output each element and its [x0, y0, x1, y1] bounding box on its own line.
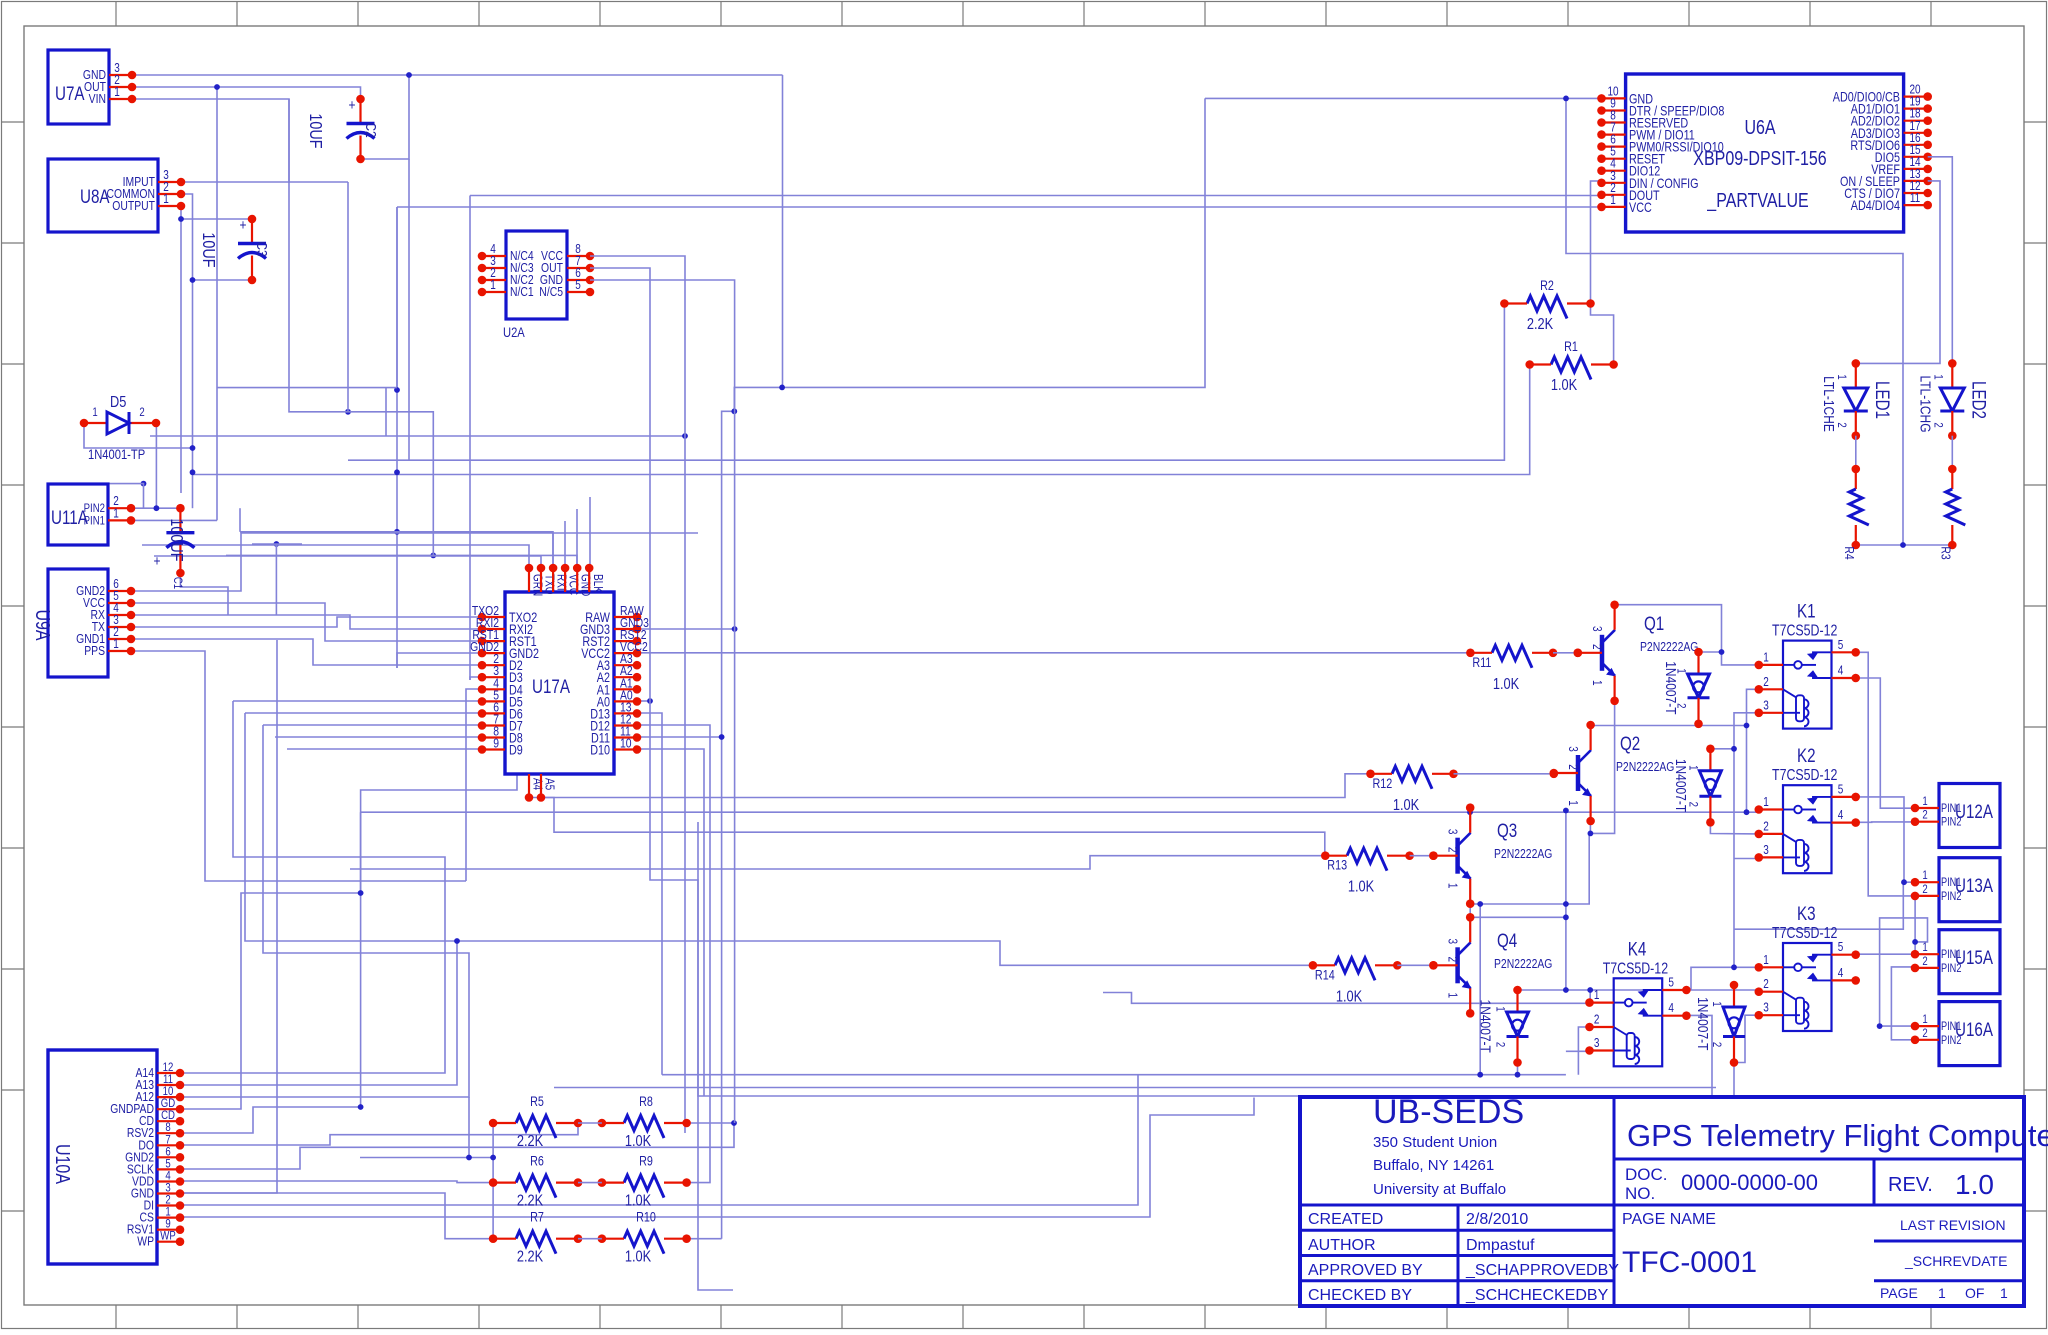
svg-text:2: 2 — [1922, 955, 1927, 968]
junction at (1565.9,990) — [1563, 987, 1569, 993]
svg-text:Q4: Q4 — [1497, 929, 1518, 951]
wire SCLK net — [180, 1123, 734, 1169]
svg-text:WP: WP — [160, 1230, 175, 1243]
connector U16A — [1939, 1002, 2000, 1066]
svg-text:R11: R11 — [1472, 655, 1491, 670]
svg-text:TFC-0001: TFC-0001 — [1622, 1246, 1757, 1279]
svg-text:P2N2222AG: P2N2222AG — [1616, 760, 1674, 774]
resistor R10 1.0K — [624, 1231, 664, 1254]
wire top2 — [154, 556, 541, 568]
wire Q3 emitter junction drop — [1479, 904, 1481, 1075]
junction at (1746.5,812.2) — [1744, 809, 1750, 815]
svg-text:R9: R9 — [639, 1153, 653, 1168]
wire GND jog left — [722, 411, 735, 1238]
IC U2A oscillator — [506, 231, 567, 319]
wire R10 feed — [687, 1238, 722, 1240]
svg-text:1N4007-T: 1N4007-T — [1673, 759, 1690, 812]
svg-text:K4: K4 — [1628, 938, 1647, 960]
svg-text:R8: R8 — [639, 1094, 653, 1109]
svg-text:1: 1 — [2000, 1285, 2008, 1301]
svg-text:10UF: 10UF — [199, 232, 219, 267]
svg-text:1: 1 — [163, 193, 169, 206]
svg-text:PIN2: PIN2 — [1941, 1035, 1962, 1047]
svg-text:2: 2 — [139, 406, 144, 419]
junction at (1721.5,652) — [1719, 649, 1725, 655]
wire x360 up — [361, 774, 517, 893]
wire mid — [578, 1238, 602, 1240]
svg-text:Q1: Q1 — [1644, 612, 1664, 634]
diode D1 1N4007-T — [1697, 652, 1699, 674]
wire top1 — [142, 545, 529, 568]
svg-text:1: 1 — [92, 406, 97, 419]
svg-text:R4: R4 — [1841, 546, 1855, 560]
svg-text:PIN2: PIN2 — [1941, 963, 1962, 975]
resistor R14 1.0K — [1335, 958, 1375, 981]
resistor R6 2.2K — [516, 1175, 556, 1198]
svg-text:VCC: VCC — [1629, 200, 1652, 215]
svg-text:N/C5: N/C5 — [539, 285, 563, 299]
wire A13 link — [180, 941, 457, 1085]
svg-text:PIN1: PIN1 — [1941, 803, 1962, 815]
wire K4 pin5 to K3 pin1 — [1686, 967, 1758, 989]
wire U6A DIN to R2 — [1591, 181, 1602, 304]
wire D5 pin — [233, 700, 482, 702]
wire COMMON to C1 link — [192, 448, 194, 508]
svg-text:_SCHREVDATE: _SCHREVDATE — [1904, 1253, 2007, 1269]
connector U12A — [1939, 784, 2000, 848]
svg-text:OUTPUT: OUTPUT — [112, 199, 155, 213]
wire RXI2 net — [470, 677, 482, 680]
junction at (1565.9,810.5) — [1563, 808, 1569, 814]
wire D1 top tie — [1699, 651, 1722, 653]
junction at (1590.4,833.4) — [1588, 831, 1594, 837]
junction at (721.6,737) — [719, 734, 725, 740]
svg-text:PIN1: PIN1 — [1941, 877, 1962, 889]
wire VCC long — [397, 206, 1602, 208]
svg-text:T7CS5D-12: T7CS5D-12 — [1772, 621, 1838, 639]
wire D4/K4 node — [1518, 990, 1759, 992]
svg-text:N/C1: N/C1 — [510, 285, 534, 299]
svg-text:R1: R1 — [1564, 339, 1578, 354]
IC U8A regulator — [48, 159, 158, 232]
junction at (457,941) — [454, 938, 460, 944]
junction at (734.6,629) — [732, 626, 738, 632]
wire U9A VCC right — [131, 603, 482, 641]
junction at (1915.1,941.9) — [1912, 939, 1918, 945]
svg-text:NO.: NO. — [1625, 1184, 1655, 1203]
title block — [1300, 1097, 2024, 1306]
svg-text:1: 1 — [1493, 1006, 1506, 1011]
wire Q1 collector to K1 pin1 — [1615, 605, 1759, 665]
svg-text:2: 2 — [1922, 809, 1927, 822]
wire left maze h390 — [217, 387, 397, 389]
svg-text:2: 2 — [1763, 978, 1769, 991]
wire v386 — [385, 388, 387, 436]
wire K3 pin5 to U15A PIN1 — [1855, 953, 1915, 955]
wire K2 pin3 tie — [1734, 858, 1759, 860]
resistor R2 2.2K — [1527, 296, 1567, 319]
svg-text:1: 1 — [1938, 1285, 1946, 1301]
wire D6 pin — [245, 712, 482, 714]
svg-text:R7: R7 — [530, 1210, 544, 1225]
svg-text:1: 1 — [113, 507, 119, 520]
svg-text:R14: R14 — [1315, 967, 1335, 982]
wire Q3 collector to K2 pin1 — [361, 811, 1759, 813]
svg-text:U17A: U17A — [532, 675, 570, 697]
svg-text:2.2K: 2.2K — [1527, 316, 1554, 334]
transistor Q3 P2N2222AG — [1455, 838, 1460, 874]
svg-text:1: 1 — [1445, 993, 1458, 999]
svg-text:1: 1 — [1610, 194, 1616, 207]
svg-text:1.0K: 1.0K — [1348, 878, 1375, 896]
svg-text:PAGE NAME: PAGE NAME — [1622, 1211, 1716, 1228]
wire Q4 collector riser — [1565, 811, 1567, 918]
svg-text:3: 3 — [1763, 699, 1769, 712]
junction at (1517.5,1074.7) — [1515, 1072, 1521, 1078]
connector U15A — [1939, 930, 2000, 994]
wire U11A PIN2 to C1 — [131, 507, 180, 509]
svg-text:1.0K: 1.0K — [1493, 676, 1520, 694]
svg-text:3: 3 — [1763, 1002, 1769, 1015]
IC U7A voltage regulator — [48, 50, 109, 124]
wire K2pin5 net third branch — [1734, 882, 1903, 929]
wire R2 left down — [348, 304, 1504, 461]
svg-text:PIN1: PIN1 — [1941, 1021, 1962, 1033]
svg-text:4: 4 — [1838, 665, 1844, 678]
capacitor C1 100UF — [179, 508, 181, 533]
svg-text:3: 3 — [1763, 844, 1769, 857]
wire K1 pin3 to bus V1 — [1734, 713, 1759, 968]
wire U9A PPS down — [131, 651, 466, 881]
wire DOUT long — [470, 195, 1602, 197]
junction at (469,1157.5) — [466, 1155, 472, 1161]
wire left maze v276 — [275, 544, 277, 615]
svg-text:1N4007-T: 1N4007-T — [1695, 997, 1712, 1050]
svg-text:PIN2: PIN2 — [1941, 891, 1962, 903]
wire D13 net — [637, 713, 662, 1075]
wire U15A PIN2 to U16A PIN2 — [1891, 967, 1915, 1040]
wire R11 to Q1 base — [1553, 652, 1578, 654]
svg-text:PPS: PPS — [84, 644, 105, 658]
junction dot GND at LED resistors — [1900, 542, 1906, 548]
svg-text:Q2: Q2 — [1620, 732, 1640, 754]
wire U8A OUTPUT to C3 — [181, 206, 252, 219]
svg-text:1: 1 — [114, 86, 120, 99]
svg-text:2: 2 — [1445, 847, 1458, 853]
wire VIN riser down — [289, 99, 433, 555]
svg-text:T7CS5D-12: T7CS5D-12 — [1603, 959, 1669, 977]
wire riser x277 down — [180, 640, 277, 1193]
svg-text:LTL-1CHG: LTL-1CHG — [1917, 375, 1934, 432]
svg-text:1.0K: 1.0K — [1336, 988, 1363, 1006]
svg-text:1.0K: 1.0K — [625, 1192, 652, 1210]
wire Q2 emitter — [1589, 821, 1591, 834]
wire top3 — [552, 533, 554, 568]
resistor R11 1.0K — [1492, 645, 1532, 668]
wire U9A GND2 — [131, 533, 698, 591]
svg-text:5: 5 — [575, 279, 581, 292]
svg-text:3: 3 — [1445, 829, 1458, 835]
svg-text:11: 11 — [1910, 192, 1920, 205]
wire U6A GND riser — [734, 98, 1205, 411]
svg-text:GPS Telemetry Flight Computer: GPS Telemetry Flight Computer — [1627, 1118, 2048, 1153]
wire bottom bus1 — [662, 1074, 1566, 1076]
junction at (360.6,1107) — [358, 1104, 364, 1110]
wire C2 bottom to GND riser — [361, 75, 410, 159]
svg-text:100UF: 100UF — [167, 518, 187, 561]
wire U7A GND to U6A area — [132, 74, 783, 76]
svg-text:PIN1: PIN1 — [84, 514, 105, 527]
wire R14 to Q4 base — [1397, 964, 1433, 966]
wire U8A COMMON down — [181, 194, 193, 280]
wire C3 bottom left — [193, 279, 253, 281]
LED LED1 LTL-1CHE with resistor R4 — [1852, 359, 1861, 368]
junction at (1904,882.2) — [1901, 879, 1907, 885]
svg-text:Q3: Q3 — [1497, 819, 1517, 841]
wire D5 right down — [155, 423, 157, 508]
junction at (360.6,893) — [358, 890, 364, 896]
svg-text:2.2K: 2.2K — [517, 1133, 544, 1151]
wire U9A TX — [131, 617, 482, 627]
junction at (782.1,387.4) — [779, 385, 785, 391]
wire U6A DIO5 to LED2 — [1928, 157, 1953, 364]
wire GND(U10A) net — [180, 1193, 493, 1239]
resistor R8 1.0K — [624, 1116, 664, 1139]
svg-text:U11A: U11A — [51, 506, 88, 528]
svg-text:350 Student Union: 350 Student Union — [1373, 1134, 1497, 1151]
svg-text:U6A: U6A — [1744, 116, 1776, 138]
wire VDD net — [180, 1181, 493, 1183]
wire x360 riser — [360, 812, 362, 1107]
SD card U10A — [48, 1050, 157, 1264]
svg-text:R3: R3 — [1938, 546, 1952, 560]
wire R1 left down — [193, 365, 1530, 475]
svg-text:2: 2 — [1922, 883, 1927, 896]
svg-text:R13: R13 — [1327, 858, 1347, 873]
wire D2 top tie — [1710, 748, 1734, 750]
wire D3 bottom to bus — [1733, 1063, 1735, 1097]
svg-text:VIN: VIN — [89, 92, 106, 106]
wire U2A VCC — [590, 256, 685, 1133]
svg-text:LAST REVISION: LAST REVISION — [1900, 1217, 2006, 1233]
wire D2 bottom tie — [1710, 822, 1758, 834]
wire U6A GND left — [1205, 97, 1602, 99]
svg-text:BLK: BLK — [590, 574, 603, 593]
diode D3 1N4007-T — [1733, 985, 1735, 1007]
svg-text:10: 10 — [620, 736, 632, 750]
wire U9A RX — [131, 615, 482, 629]
svg-text:1: 1 — [1763, 954, 1769, 967]
wire IMPUT riser join — [347, 182, 349, 412]
wire GND3 net — [637, 628, 735, 630]
wire Q4 collector link — [1470, 917, 1566, 990]
svg-text:1: 1 — [1590, 680, 1603, 686]
junction at (650,701) — [647, 698, 653, 704]
wire GND net down to LED resistors — [1566, 98, 1903, 545]
svg-text:C1: C1 — [171, 577, 184, 589]
svg-text:LED1: LED1 — [1871, 381, 1893, 419]
wire R4/R3 bottom join — [1856, 544, 1951, 546]
junction at (734,1123) — [731, 1120, 737, 1126]
svg-text:A5: A5 — [542, 778, 555, 790]
transistor Q1 P2N2222AG — [1600, 635, 1605, 671]
svg-text:9: 9 — [493, 736, 499, 750]
junction at (1480.2,1074.7) — [1477, 1072, 1483, 1078]
connector U11A — [48, 484, 108, 545]
svg-text:D5: D5 — [110, 394, 126, 412]
connector U13A — [1939, 858, 2000, 922]
wire R left column — [492, 1123, 494, 1239]
svg-text:1N4007-T: 1N4007-T — [1663, 661, 1680, 714]
wire R12 to Q2 base — [1454, 773, 1554, 775]
wire U2A OUT — [590, 268, 733, 1290]
svg-text:K3: K3 — [1797, 902, 1816, 924]
resistor R12 1.0K — [1392, 766, 1432, 789]
wire TXO2 net — [397, 653, 482, 668]
wire left maze h532 — [239, 508, 241, 532]
wire Q2 collector / D1 bottom — [1590, 725, 1746, 727]
svg-text:K2: K2 — [1797, 745, 1816, 767]
svg-text:2: 2 — [1493, 1042, 1506, 1047]
svg-text:WP: WP — [137, 1235, 154, 1249]
resistor R13 1.0K — [1347, 848, 1387, 871]
wire DO net — [180, 1123, 578, 1145]
wire K3 pin3 net — [1734, 1015, 1759, 1062]
resistor R9 1.0K — [624, 1175, 664, 1198]
svg-text:C2: C2 — [363, 122, 380, 137]
svg-text:1: 1 — [1922, 1013, 1927, 1026]
LED LED2 LTL-1CHG with resistor R3 — [1948, 359, 1957, 368]
wire D4 bottom to bus — [1517, 1063, 1519, 1075]
svg-text:1: 1 — [1922, 795, 1927, 808]
MCU U17A — [505, 592, 614, 774]
svg-text:U7A: U7A — [55, 82, 85, 104]
wire bus3 — [554, 1087, 1716, 1089]
svg-text:1: 1 — [1763, 651, 1769, 664]
wire D4 pin — [466, 689, 482, 881]
junction at (1734,748.8) — [1731, 746, 1737, 752]
svg-text:DOC.: DOC. — [1625, 1165, 1668, 1184]
svg-text:T7CS5D-12: T7CS5D-12 — [1772, 924, 1838, 942]
relay K3 T7CS5D-12 — [1783, 943, 1832, 1031]
wire R13 to Q3 base — [1410, 855, 1434, 857]
wire C1 bottom — [180, 573, 228, 615]
svg-text:1: 1 — [1594, 989, 1600, 1002]
wire left maze h544 — [252, 543, 302, 545]
junction at (1879.6,1026.1) — [1877, 1023, 1883, 1029]
junction at (1746.5,725.5) — [1744, 723, 1750, 729]
junction at (734.3,411.3) — [731, 408, 737, 414]
svg-text:Buffalo, NY 14261: Buffalo, NY 14261 — [1373, 1157, 1494, 1174]
svg-text:1N4007-T: 1N4007-T — [1477, 1000, 1494, 1053]
diode D4 1N4007-T — [1516, 990, 1518, 1012]
svg-text:2: 2 — [1763, 676, 1769, 689]
wire left maze l483 — [100, 484, 144, 509]
svg-text:R2: R2 — [1540, 278, 1554, 293]
wire R2 to R1 — [1591, 304, 1614, 365]
svg-text:2.2K: 2.2K — [517, 1248, 544, 1266]
svg-text:LTL-1CHE: LTL-1CHE — [1820, 376, 1837, 432]
wire COMMON riser down — [192, 280, 194, 448]
wire A0 tie — [637, 700, 650, 702]
svg-text:CHECKED BY: CHECKED BY — [1308, 1287, 1412, 1304]
wire D10 net — [637, 749, 704, 1096]
svg-text:5: 5 — [1838, 783, 1844, 796]
svg-text:CREATED: CREATED — [1308, 1211, 1383, 1228]
svg-text:2/8/2010: 2/8/2010 — [1466, 1211, 1528, 1228]
svg-text:2: 2 — [1922, 1027, 1927, 1040]
svg-text:_SCHAPPROVEDBY: _SCHAPPROVEDBY — [1465, 1262, 1619, 1279]
junction at (578,1123) — [575, 1120, 581, 1126]
svg-text:REV.: REV. — [1888, 1174, 1933, 1196]
wire GNDPAD — [180, 893, 361, 1109]
svg-text:+: + — [153, 553, 160, 570]
svg-text:UB-SEDS: UB-SEDS — [1373, 1093, 1524, 1131]
wire K4 pin1 jog — [1589, 990, 1592, 1003]
resistor R5 2.2K — [516, 1116, 556, 1139]
wire D12 net — [637, 725, 710, 1183]
junction dots — [406, 72, 412, 78]
wire U7A OUT to C2 top — [132, 87, 361, 99]
wire DOUT riser — [469, 196, 471, 681]
wire A riser2 — [245, 713, 1313, 965]
svg-text:D10: D10 — [590, 742, 610, 757]
svg-text:2.2K: 2.2K — [517, 1192, 544, 1210]
svg-text:5: 5 — [1838, 941, 1844, 954]
svg-text:1: 1 — [113, 638, 119, 651]
wire OUT branch down — [216, 87, 218, 520]
svg-text:0000-0000-00: 0000-0000-00 — [1681, 1170, 1818, 1195]
relay K4 T7CS5D-12 — [1614, 978, 1663, 1066]
svg-text:_PARTVALUE: _PARTVALUE — [1706, 189, 1808, 212]
svg-text:+: + — [348, 97, 355, 114]
svg-text:University at Buffalo: University at Buffalo — [1373, 1181, 1506, 1198]
svg-text:5: 5 — [1668, 977, 1674, 990]
svg-text:R6: R6 — [530, 1153, 544, 1168]
capacitor C2 10UF — [359, 99, 361, 124]
wire left maze h435 — [150, 435, 685, 437]
resistor R7 2.2K — [516, 1231, 556, 1254]
wire K2 pin5 to U13A PIN1 — [1855, 797, 1915, 882]
svg-text:1.0K: 1.0K — [625, 1248, 652, 1266]
wire Q3/Q4 emitter-collector tie — [1469, 904, 1471, 918]
wire U8A IMPUT right — [181, 181, 348, 183]
junction at (685,436) — [682, 433, 688, 439]
svg-text:1N4001-TP: 1N4001-TP — [88, 447, 145, 462]
svg-text:1: 1 — [1445, 883, 1458, 889]
svg-text:1: 1 — [490, 279, 496, 292]
svg-text:1.0K: 1.0K — [1551, 377, 1578, 395]
capacitor C3 10UF — [251, 219, 253, 244]
junction at (1565.9,904) — [1563, 901, 1569, 907]
wire mid — [578, 1182, 602, 1184]
wire GND net drop — [782, 75, 784, 387]
wire U7A VIN down — [132, 99, 289, 183]
transistor Q2 P2N2222AG — [1576, 755, 1581, 791]
wire D5 left to net — [84, 423, 193, 448]
wire R11 left VCC2 — [637, 652, 1470, 654]
wire U6A ON/SLEEP to LED1 — [1856, 181, 1940, 364]
wire Q3 collector stub tie — [1469, 808, 1471, 813]
wire A riser1 — [180, 701, 445, 1073]
wire top5 — [576, 509, 578, 568]
wire emitter bus down — [1470, 833, 1589, 904]
svg-text:1: 1 — [1922, 941, 1927, 954]
wire top4 — [564, 521, 566, 568]
svg-text:5: 5 — [1838, 639, 1844, 652]
svg-text:4: 4 — [1668, 1002, 1674, 1015]
wire VCC riser ext — [396, 207, 398, 390]
